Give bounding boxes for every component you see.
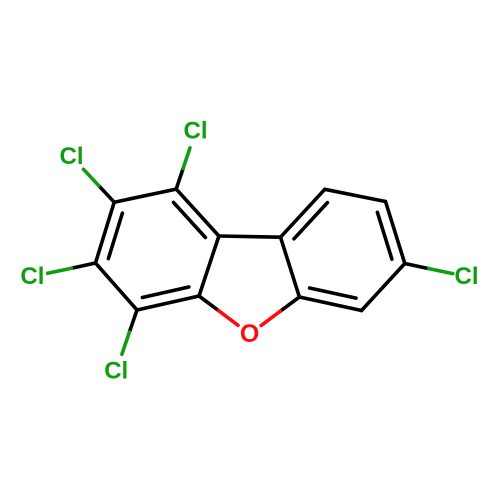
svg-text:Cl: Cl [104,357,128,384]
svg-text:Cl: Cl [455,263,479,290]
svg-text:Cl: Cl [20,263,44,290]
svg-text:Cl: Cl [184,118,208,145]
svg-text:O: O [240,320,259,348]
svg-text:Cl: Cl [60,143,84,170]
